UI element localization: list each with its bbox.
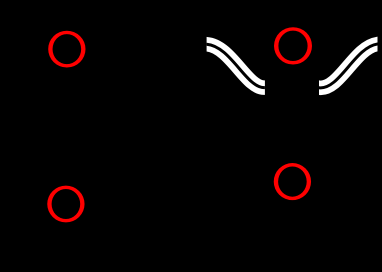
atom O4 (mid-right oxygen label, red ring) <box>274 163 311 200</box>
atom O3 (top-right oxygen label, red ring) <box>274 27 312 64</box>
bond B2 right curved bond, white halo <box>315 43 382 87</box>
atom O2 (bottom-left oxygen label, red ring) <box>47 186 84 223</box>
bond B1 left curved bond, black centerline <box>202 44 269 88</box>
atom O1 (top-left oxygen label, red ring) <box>48 31 85 68</box>
bond B2 right curved bond, black centerline <box>315 43 382 87</box>
bond B1 left curved bond, white halo <box>202 44 269 88</box>
